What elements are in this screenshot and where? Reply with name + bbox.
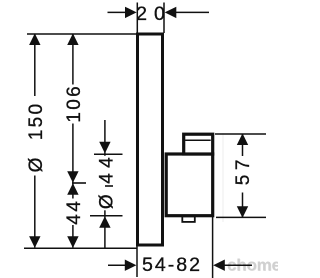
- escutcheon plate (side view): [138, 34, 163, 245]
- dimension line 57: [242, 134, 244, 217]
- handle cap: [184, 134, 213, 154]
- arrow 57 top: [237, 133, 248, 145]
- svg-text:Ø 4 4: Ø 4 4: [96, 157, 117, 209]
- dimension tail 20 right: [175, 11, 209, 13]
- centre tick at 106/44 junction: [72, 182, 86, 184]
- arrow 54-82 left: [125, 260, 137, 271]
- text backing 106: [65, 85, 81, 124]
- extension line body top (for dim 44 dia): [94, 153, 123, 155]
- extension line body bottom (for dim 44 dia): [90, 215, 123, 217]
- extension line bottom left (for dim 54-82): [136, 246, 138, 277]
- svg-text:44: 44: [64, 198, 85, 224]
- extension line right of dim 20: [163, 3, 165, 34]
- arrow 150dia bottom: [29, 236, 40, 248]
- svg-text:57: 57: [233, 155, 254, 185]
- handle body: [166, 154, 213, 216]
- svg-text:106: 106: [64, 84, 85, 123]
- dimension tail 54-82 right: [224, 264, 252, 266]
- svg-text:Ø 150: Ø 150: [26, 102, 47, 173]
- dimension line 44 dia: [104, 120, 106, 248]
- extension line body bottom right (for dim 57): [216, 216, 266, 218]
- bottom notch: [182, 217, 195, 222]
- arrow 20 left: [125, 7, 137, 18]
- arrow 57 bottom: [237, 206, 248, 218]
- svg-text:2 0: 2 0: [136, 3, 166, 25]
- arrow 44dia top pointing down: [99, 142, 110, 154]
- arrow 54-82 right: [213, 260, 225, 271]
- text backing 150dia: [27, 96, 43, 176]
- centre tick on 44dia line: [105, 185, 113, 187]
- arrow 44dia bottom pointing up: [99, 216, 110, 228]
- dimension tail 54-82 left: [108, 264, 126, 266]
- cap inner groove line: [185, 139, 211, 141]
- dimension line 106 and 44: [72, 34, 74, 247]
- arrow 150dia top: [29, 33, 40, 45]
- arrow 106 bottom: [67, 171, 78, 183]
- extension line plate bottom left: [24, 247, 137, 249]
- text backing 57: [235, 156, 251, 193]
- extension line left of dim 20: [136, 3, 138, 34]
- arrow 44 top (butt): [67, 183, 78, 195]
- svg-text:54-82: 54-82: [142, 254, 202, 276]
- extension line bottom right (for dim 54-82): [212, 217, 214, 278]
- dimension line 150 dia: [34, 34, 36, 247]
- arrow 20 right: [165, 7, 177, 18]
- arrow 106 top: [67, 33, 78, 45]
- faint vertical fold line: [222, 133, 224, 222]
- extension line plate top left: [27, 33, 136, 35]
- text backing 44dia: [97, 156, 113, 211]
- arrow 44 bottom: [67, 236, 78, 248]
- extension line cap top right (for dim 57): [215, 133, 266, 135]
- text backing 44: [65, 199, 81, 226]
- dimension tail 20 left: [108, 11, 127, 13]
